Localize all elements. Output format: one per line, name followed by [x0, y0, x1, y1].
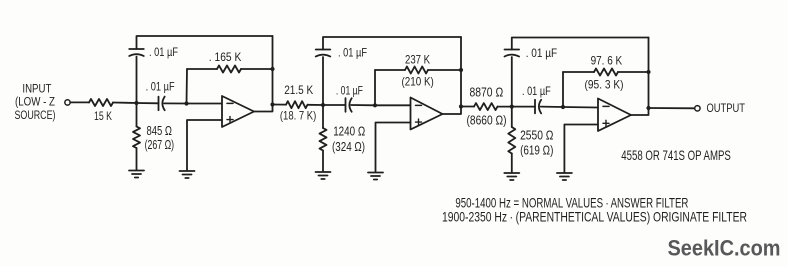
wire C5 to top feedback stage3 — [512, 38, 649, 50]
capacitor C1 .01uF shunt — [129, 49, 144, 56]
node A junction — [134, 101, 138, 105]
wire node D to C3 — [322, 57, 324, 105]
capacitor C3 .01uF shunt — [316, 50, 331, 57]
svg-text:(210 K): (210 K) — [402, 75, 434, 89]
node feedback stage1 — [270, 67, 274, 71]
wire U2 non-inverting to ground — [376, 123, 411, 172]
wire C1 to top feedback — [137, 36, 273, 49]
svg-text:1240 Ω: 1240 Ω — [333, 124, 365, 139]
node C stage1 output — [270, 102, 274, 106]
svg-text:INPUT: INPUT — [22, 84, 51, 96]
svg-text:(324 Ω): (324 Ω) — [332, 139, 365, 154]
wire node H up to R9 — [562, 72, 564, 107]
op-amp U3 — [598, 99, 631, 132]
resistor R7 8870 ohm — [474, 103, 498, 110]
ground G4 — [368, 173, 383, 180]
wire node D to R5 — [322, 105, 324, 128]
resistor R4 21.5K — [286, 101, 308, 108]
ground G2 — [180, 171, 195, 178]
ground G6 — [557, 173, 572, 180]
resistor R6 237K feedback — [405, 67, 428, 74]
svg-text:15 K: 15 K — [94, 109, 112, 123]
wire C3 to top feedback stage2 — [323, 37, 461, 50]
svg-text:. 165 K: . 165 K — [209, 50, 242, 64]
ground G1 — [129, 171, 144, 178]
capacitor C5 .01uF shunt — [505, 50, 520, 57]
wire to output terminal — [649, 107, 695, 109]
node B inverting input junction — [184, 101, 188, 105]
wire U1 output jog — [254, 105, 273, 112]
wire node E to U2 inverting input — [375, 104, 411, 106]
node H inverting junction stage3 — [561, 105, 565, 109]
svg-text:. 01 µF: . 01 µF — [149, 45, 178, 59]
wire R8 to ground — [511, 154, 513, 173]
wire R4 to node D — [308, 104, 324, 106]
wire C2 to node B — [164, 102, 187, 104]
svg-text:. 01 µF: . 01 µF — [522, 84, 551, 98]
input terminal — [65, 100, 70, 105]
node E inverting junction stage2 — [373, 103, 377, 107]
svg-text:(267 Ω): (267 Ω) — [145, 137, 175, 152]
wire node F to R7 — [461, 106, 474, 108]
node G junction — [510, 105, 514, 109]
wire U2 output jog — [443, 107, 462, 115]
svg-text:(LOW - Z: (LOW - Z — [15, 97, 55, 109]
wire node G to C5 — [511, 57, 513, 107]
wire to R9 — [563, 71, 594, 73]
capacitor C4 .01uF series — [346, 98, 352, 112]
wire R9 to feedback node stage3 — [618, 71, 649, 73]
svg-text:(18. 7 K): (18. 7 K) — [280, 109, 316, 123]
wire node A to C1 — [136, 57, 138, 104]
resistor R8 2550 ohm — [508, 127, 515, 154]
resistor R5 1240 ohm — [320, 128, 327, 151]
wire node E up to R6 — [374, 70, 376, 105]
ground G5 — [504, 173, 519, 180]
wire C4 to node E — [351, 104, 375, 106]
node D junction — [321, 103, 325, 107]
wire node H to U3 inverting input — [563, 106, 598, 109]
wire R6 to feedback node stage2 — [428, 69, 461, 71]
wire U3 non-inverting to ground — [564, 125, 598, 173]
svg-text:2550 Ω: 2550 Ω — [520, 128, 553, 143]
resistor R3 165K feedback — [217, 66, 241, 73]
svg-text:845 Ω: 845 Ω — [147, 123, 173, 138]
op-amp U2 — [411, 98, 443, 130]
svg-text:. 01 µF: . 01 µF — [338, 46, 367, 60]
svg-text:. 01 µF: . 01 µF — [146, 80, 175, 94]
wire node G to R8 — [511, 107, 513, 127]
wire node C to R4 — [273, 104, 287, 106]
svg-text:4558 OR 741S OP AMPS: 4558 OR 741S OP AMPS — [621, 147, 731, 163]
wire node B up to R3 — [186, 69, 189, 104]
wire U1 non-inverting to ground — [187, 120, 222, 170]
resistor R1 15K — [89, 99, 113, 106]
wire to R6 — [375, 69, 405, 71]
wire R3 to feedback node — [241, 68, 273, 70]
svg-text:237 K: 237 K — [405, 53, 430, 67]
wire node D to C4 — [323, 104, 346, 106]
resistor R2 845 ohm — [133, 127, 140, 149]
svg-text:. 01 µF: . 01 µF — [336, 84, 363, 98]
svg-text:21.5 K: 21.5 K — [284, 83, 313, 97]
wire to R3 — [187, 68, 217, 70]
wire node G to C6 — [512, 106, 535, 108]
svg-text:(619 Ω): (619 Ω) — [520, 143, 553, 158]
svg-text:8870 Ω: 8870 Ω — [470, 85, 504, 100]
wire node B to U1 inverting input — [187, 103, 223, 105]
wire R2 to ground — [136, 148, 138, 170]
svg-text:. 01 µF: . 01 µF — [526, 46, 558, 60]
wire C6 to node H — [541, 106, 563, 108]
op-amp U1 — [222, 96, 254, 127]
wire feedback right vertical stage2 — [460, 37, 462, 107]
wire node A to R2 — [136, 103, 138, 127]
wire R5 to ground — [322, 151, 324, 172]
capacitor C2 .01uF series — [159, 97, 165, 111]
node feedback stage3 — [646, 70, 650, 74]
capacitor C6 .01uF series — [535, 100, 541, 114]
resistor R9 97.6K feedback — [594, 69, 618, 76]
ground G3 — [316, 172, 331, 179]
node J stage3 output — [646, 106, 650, 110]
wire R7 to node G — [498, 106, 512, 108]
node feedback stage2 — [459, 68, 463, 72]
wire R1 to node A — [113, 102, 137, 105]
wire U3 output jog — [631, 108, 649, 115]
wire input to R1 — [70, 101, 89, 103]
wire feedback right vertical stage1 — [272, 36, 274, 105]
wire feedback right vertical stage3 — [648, 38, 650, 109]
output terminal — [695, 106, 700, 111]
svg-text:(8660 Ω): (8660 Ω) — [467, 113, 507, 128]
node F stage2 output — [459, 104, 463, 108]
svg-text:97. 6 K: 97. 6 K — [591, 54, 623, 68]
svg-text:SOURCE): SOURCE) — [15, 110, 56, 122]
wire node A to C2 — [137, 102, 159, 104]
svg-text:1900-2350 Hz ∙ (PARENTHETICAL: 1900-2350 Hz ∙ (PARENTHETICAL VALUES) OR… — [442, 209, 747, 225]
svg-text:OUTPUT: OUTPUT — [707, 101, 746, 115]
svg-text:(95. 3 K): (95. 3 K) — [585, 78, 624, 92]
svg-text:SeekIC.com: SeekIC.com — [668, 236, 781, 261]
